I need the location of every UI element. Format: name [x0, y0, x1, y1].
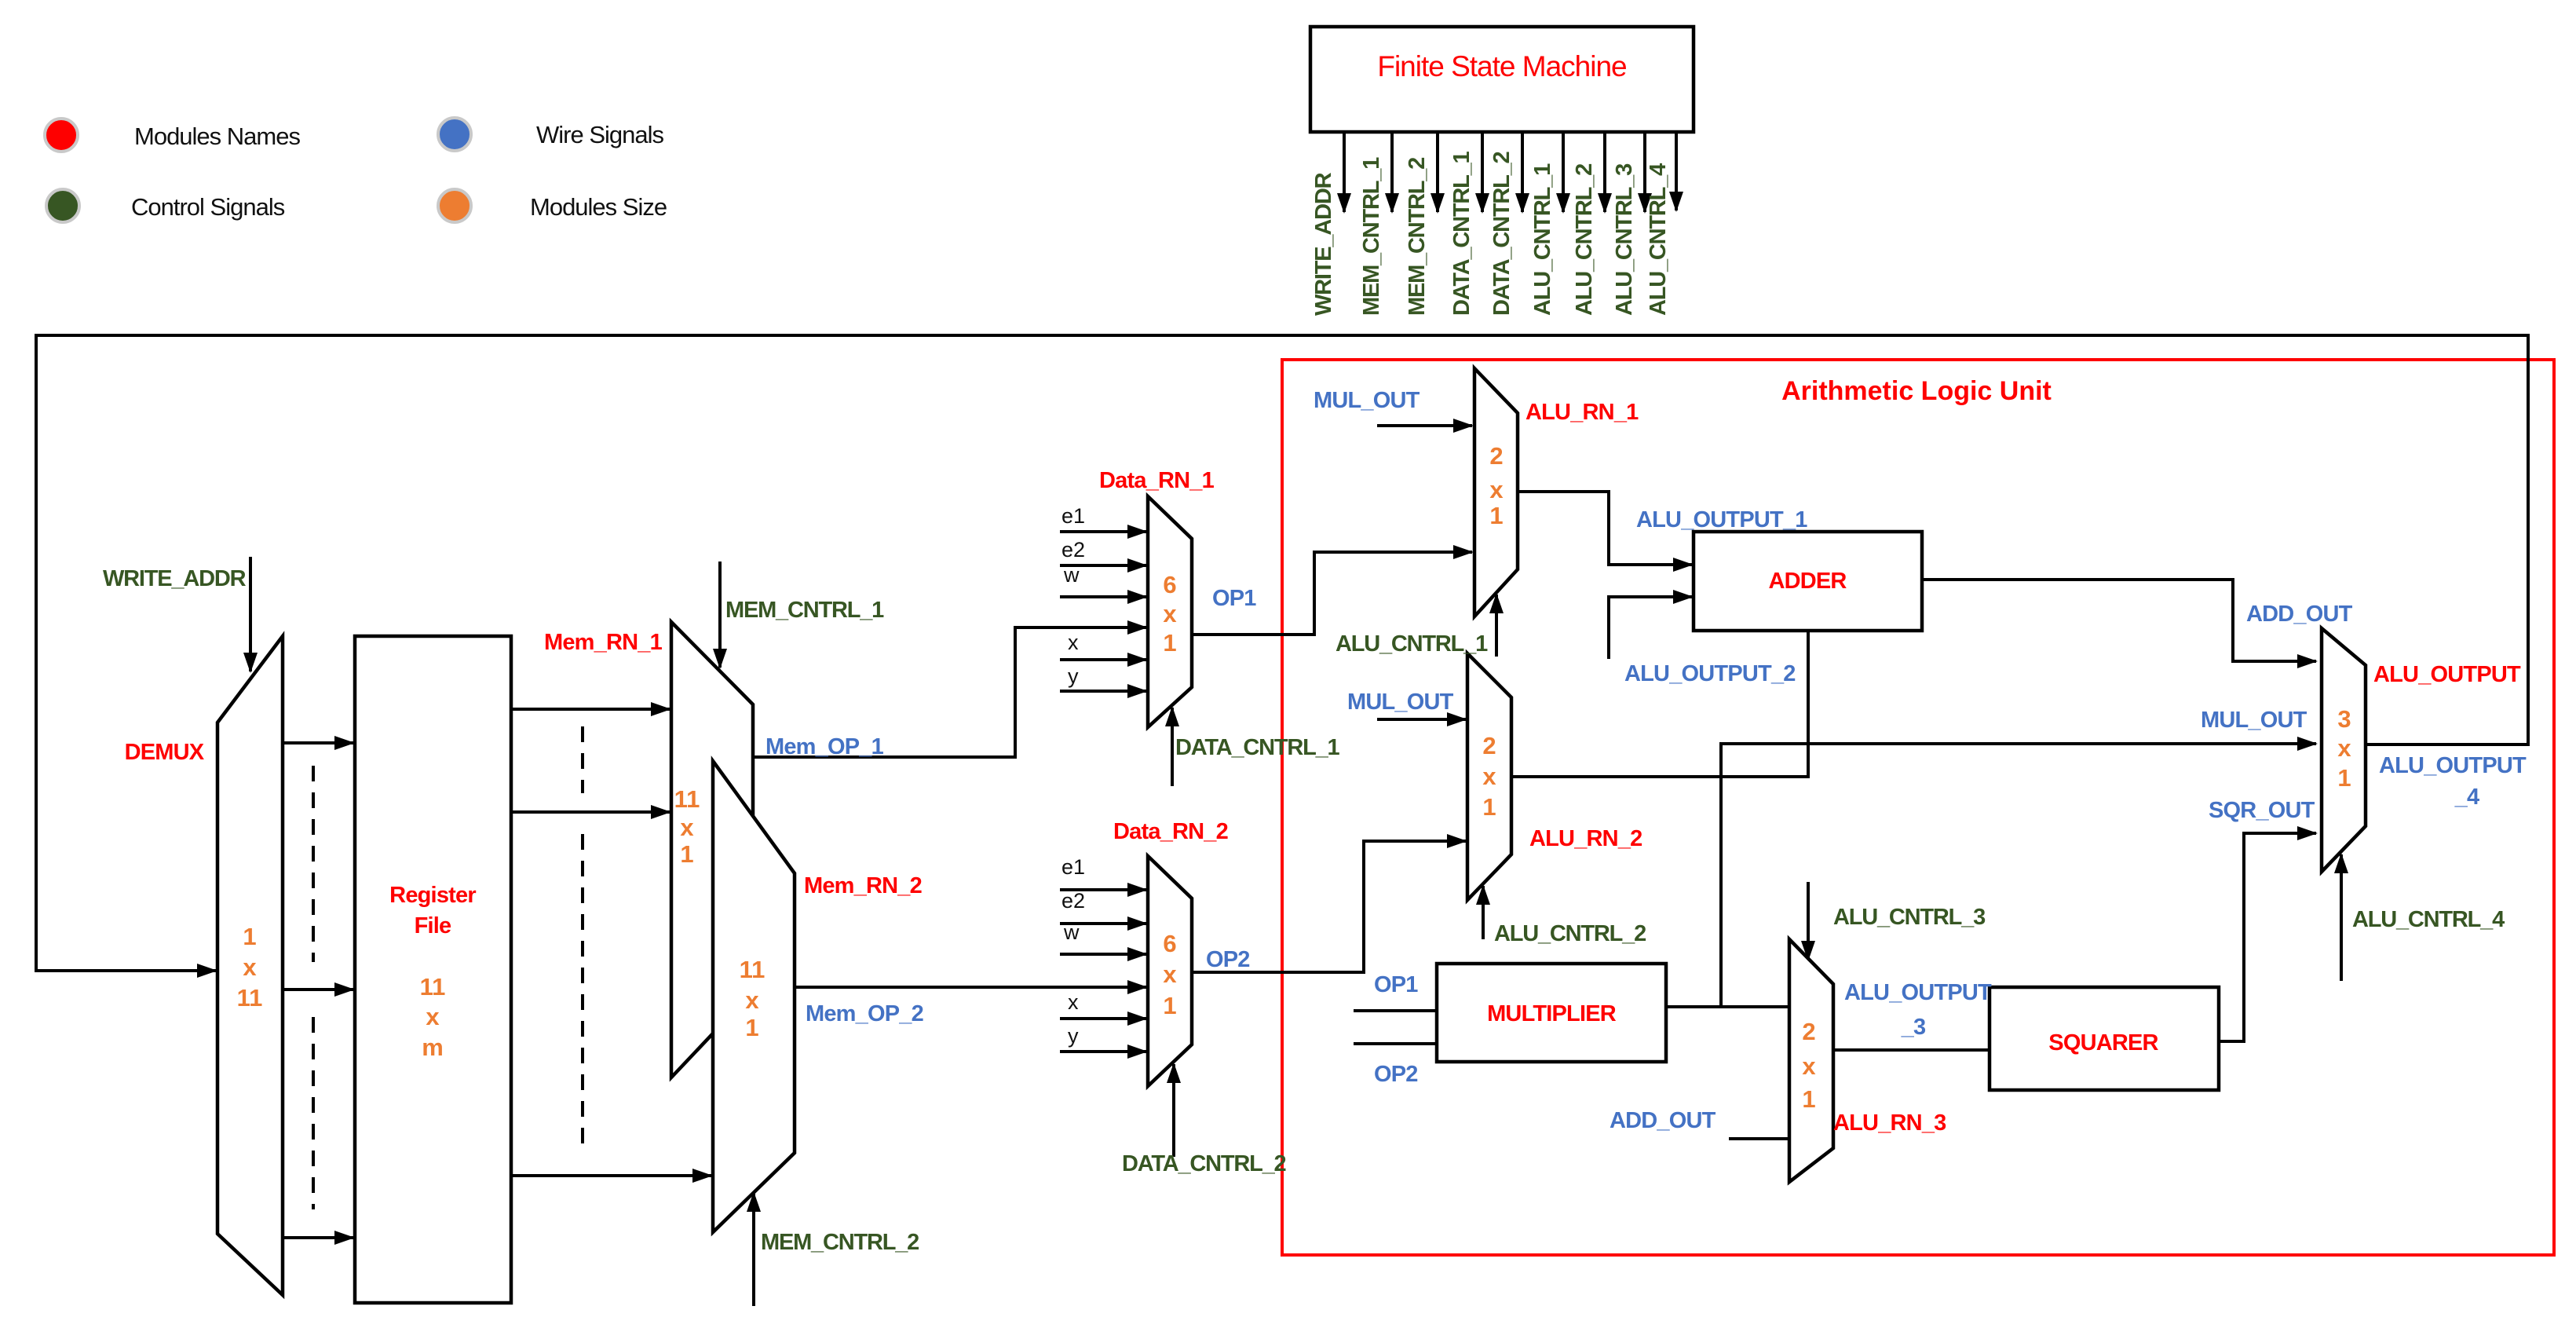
svg-text:e2: e2 [1061, 889, 1085, 913]
svg-text:Modules Size: Modules Size [530, 193, 667, 221]
svg-text:ADD_OUT: ADD_OUT [1610, 1108, 1716, 1133]
svg-text:11: 11 [674, 785, 700, 813]
svg-text:x: x [1068, 631, 1079, 654]
svg-text:MUL_OUT: MUL_OUT [2201, 708, 2307, 733]
svg-text:x: x [2337, 734, 2351, 762]
svg-text:x: x [745, 986, 759, 1014]
svg-text:Modules Names: Modules Names [134, 123, 300, 150]
svg-text:1: 1 [243, 923, 256, 950]
svg-text:x: x [1489, 476, 1504, 503]
svg-text:y: y [1068, 664, 1079, 688]
svg-text:x: x [1482, 763, 1496, 790]
svg-text:_3: _3 [1901, 1015, 1926, 1040]
svg-text:DATA_CNTRL_1: DATA_CNTRL_1 [1175, 735, 1340, 760]
svg-text:Arithmetic Logic Unit: Arithmetic Logic Unit [1781, 376, 2052, 406]
svg-text:DEMUX: DEMUX [125, 740, 205, 765]
svg-text:DATA_CNTRL_2: DATA_CNTRL_2 [1489, 152, 1515, 316]
svg-text:ALU_CNTRL_4: ALU_CNTRL_4 [1646, 163, 1671, 316]
svg-text:File: File [415, 913, 451, 938]
svg-text:1: 1 [1163, 629, 1176, 657]
svg-text:SQR_OUT: SQR_OUT [2209, 798, 2315, 823]
svg-text:ALU_CNTRL_3: ALU_CNTRL_3 [1612, 163, 1637, 316]
svg-text:x: x [426, 1003, 440, 1030]
svg-text:3: 3 [2337, 705, 2351, 733]
svg-text:e2: e2 [1061, 538, 1085, 562]
svg-text:ALU_RN_3: ALU_RN_3 [1833, 1110, 1946, 1136]
svg-text:ALU_OUTPUT: ALU_OUTPUT [2379, 753, 2527, 778]
svg-text:Data_RN_1: Data_RN_1 [1099, 468, 1215, 493]
svg-text:6: 6 [1163, 571, 1176, 598]
svg-text:Finite State Machine: Finite State Machine [1377, 50, 1626, 82]
svg-text:y: y [1068, 1024, 1079, 1048]
svg-text:MEM_CNTRL_2: MEM_CNTRL_2 [761, 1230, 919, 1255]
svg-text:OP2: OP2 [1206, 947, 1250, 972]
svg-text:2: 2 [1489, 442, 1503, 470]
svg-text:x: x [1163, 960, 1177, 988]
svg-text:w: w [1063, 920, 1080, 944]
svg-text:_4: _4 [2454, 785, 2479, 810]
svg-text:OP1: OP1 [1212, 586, 1256, 611]
svg-text:1: 1 [745, 1014, 758, 1041]
svg-text:x: x [680, 814, 694, 841]
svg-text:Mem_RN_2: Mem_RN_2 [804, 873, 922, 898]
svg-text:1: 1 [2337, 764, 2351, 792]
svg-text:WRITE_ADDR: WRITE_ADDR [1311, 172, 1336, 316]
svg-text:1: 1 [1482, 793, 1496, 821]
svg-text:Register: Register [389, 883, 476, 908]
svg-text:ALU_OUTPUT: ALU_OUTPUT [1844, 980, 1992, 1005]
svg-text:2: 2 [1482, 732, 1496, 759]
svg-text:MEM_CNTRL_1: MEM_CNTRL_1 [725, 598, 884, 623]
svg-text:Mem_RN_1: Mem_RN_1 [544, 630, 663, 655]
svg-text:ALU_CNTRL_3: ALU_CNTRL_3 [1833, 905, 1986, 930]
svg-text:e1: e1 [1061, 855, 1085, 879]
svg-text:ADDER: ADDER [1768, 569, 1847, 594]
svg-text:MULTIPLIER: MULTIPLIER [1487, 1001, 1617, 1026]
svg-text:SQUARER: SQUARER [2048, 1030, 2158, 1055]
svg-text:2: 2 [1802, 1018, 1815, 1045]
svg-text:MEM_CNTRL_1: MEM_CNTRL_1 [1359, 157, 1384, 316]
svg-text:1: 1 [1163, 992, 1176, 1019]
svg-text:x: x [243, 953, 257, 981]
svg-text:ALU_CNTRL_2: ALU_CNTRL_2 [1572, 164, 1597, 316]
svg-text:DATA_CNTRL_2: DATA_CNTRL_2 [1122, 1151, 1286, 1176]
svg-text:WRITE_ADDR: WRITE_ADDR [103, 566, 247, 591]
svg-text:MUL_OUT: MUL_OUT [1314, 388, 1420, 413]
svg-text:Control Signals: Control Signals [131, 193, 285, 221]
svg-text:ALU_RN_1: ALU_RN_1 [1526, 400, 1639, 425]
svg-text:x: x [1163, 600, 1177, 627]
svg-text:Wire Signals: Wire Signals [536, 121, 663, 148]
svg-text:ALU_CNTRL_4: ALU_CNTRL_4 [2352, 907, 2505, 932]
svg-text:ADD_OUT: ADD_OUT [2246, 602, 2353, 627]
svg-text:ALU_CNTRL_1: ALU_CNTRL_1 [1530, 163, 1555, 316]
svg-text:OP1: OP1 [1374, 972, 1418, 997]
svg-text:11: 11 [420, 973, 446, 1001]
svg-text:MUL_OUT: MUL_OUT [1347, 690, 1454, 715]
svg-text:11: 11 [237, 984, 263, 1012]
svg-text:x: x [1068, 990, 1079, 1014]
svg-text:1: 1 [680, 840, 693, 868]
svg-text:ALU_OUTPUT: ALU_OUTPUT [2373, 662, 2521, 687]
svg-text:m: m [422, 1033, 444, 1061]
svg-text:ALU_RN_2: ALU_RN_2 [1529, 826, 1642, 851]
svg-text:Mem_OP_1: Mem_OP_1 [765, 734, 884, 759]
svg-text:OP2: OP2 [1374, 1062, 1418, 1087]
svg-text:ALU_CNTRL_2: ALU_CNTRL_2 [1494, 921, 1646, 946]
svg-text:e1: e1 [1061, 504, 1085, 528]
svg-text:ALU_OUTPUT_2: ALU_OUTPUT_2 [1624, 661, 1796, 686]
svg-text:1: 1 [1802, 1085, 1815, 1113]
svg-text:MEM_CNTRL_2: MEM_CNTRL_2 [1405, 158, 1430, 316]
svg-text:1: 1 [1489, 502, 1503, 529]
svg-text:6: 6 [1163, 930, 1176, 957]
svg-text:w: w [1063, 563, 1080, 587]
svg-text:ALU_CNTRL_1: ALU_CNTRL_1 [1336, 631, 1488, 657]
svg-text:DATA_CNTRL_1: DATA_CNTRL_1 [1449, 151, 1474, 316]
svg-text:x: x [1802, 1052, 1816, 1080]
svg-text:ALU_OUTPUT_1: ALU_OUTPUT_1 [1636, 507, 1807, 532]
svg-text:11: 11 [740, 956, 765, 983]
svg-text:Mem_OP_2: Mem_OP_2 [806, 1001, 923, 1026]
svg-text:Data_RN_2: Data_RN_2 [1113, 819, 1228, 844]
